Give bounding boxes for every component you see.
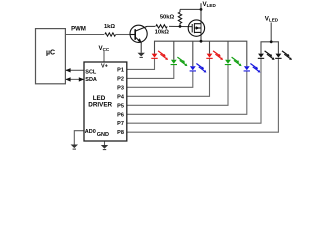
svg-text:P6: P6 xyxy=(117,112,124,118)
svg-text:V+: V+ xyxy=(101,64,108,70)
svg-text:PWM: PWM xyxy=(71,27,86,33)
svg-text:P4: P4 xyxy=(117,94,125,100)
svg-text:P1: P1 xyxy=(117,67,124,73)
svg-text:GND: GND xyxy=(97,132,109,138)
svg-text:DRIVER: DRIVER xyxy=(88,102,112,109)
svg-text:P2: P2 xyxy=(117,76,124,82)
svg-text:SDA: SDA xyxy=(85,77,97,83)
svg-text:P5: P5 xyxy=(117,103,124,109)
svg-text:AD0: AD0 xyxy=(85,129,96,135)
svg-text:50kΩ: 50kΩ xyxy=(160,15,175,21)
svg-text:1kΩ: 1kΩ xyxy=(104,24,115,30)
svg-text:SCL: SCL xyxy=(85,69,97,75)
svg-text:CC: CC xyxy=(103,47,110,52)
svg-text:µC: µC xyxy=(46,50,55,57)
svg-text:P8: P8 xyxy=(117,130,124,136)
svg-text:P7: P7 xyxy=(117,121,124,127)
svg-text:10kΩ: 10kΩ xyxy=(155,30,170,36)
svg-text:LED: LED xyxy=(269,18,279,23)
svg-text:LED: LED xyxy=(207,3,217,8)
svg-text:P3: P3 xyxy=(117,85,124,91)
